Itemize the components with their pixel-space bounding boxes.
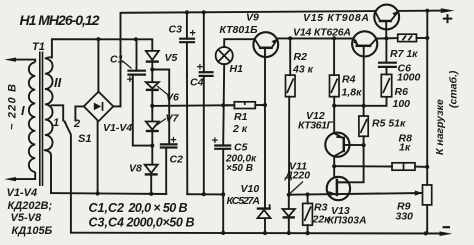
svg-text:V8: V8: [129, 163, 142, 175]
wire R3 leads: [307, 195, 309, 204]
output minus arrow: [440, 231, 453, 236]
svg-text:2 к: 2 к: [232, 123, 248, 135]
wire bottom rail: [71, 232, 445, 235]
wire secondary top hook: [45, 57, 52, 58]
wire right column x427: [426, 11, 428, 185]
svg-text:V6: V6: [166, 92, 179, 104]
resistor R5: [359, 116, 368, 136]
svg-text:R5 51к: R5 51к: [372, 118, 406, 130]
wire R7 right lead: [417, 37, 428, 39]
wire V10 bottom: [264, 218, 266, 233]
wire C3 riser: [186, 12, 188, 38]
svg-text:R3: R3: [314, 202, 328, 214]
junction AC bottom V8: [149, 192, 153, 196]
wire C6 top lead: [385, 38, 387, 62]
capacitor C6: [378, 63, 397, 67]
transformer T1 secondary winding: [45, 58, 53, 150]
wire branch V5-V6 junction to C2 top: [152, 70, 169, 145]
wire lamp C5 column: [223, 64, 224, 145]
junction minus rail C5 column: [221, 231, 225, 235]
mains input arrow top: [4, 58, 16, 62]
junction V13 drain row: [332, 164, 336, 168]
capacitor C5: [214, 146, 231, 149]
junction minus rail R9: [424, 231, 428, 235]
junction DC bottom C5: [221, 192, 225, 196]
svg-text:V1-V4: V1-V4: [7, 187, 38, 199]
wire R4 column: [333, 38, 335, 75]
wire V12 base lead: [344, 144, 364, 146]
svg-text:1,8к: 1,8к: [342, 87, 363, 99]
diode V11: [283, 209, 295, 217]
svg-text:С3,С4: С3,С4: [89, 216, 125, 230]
wire V14 base column: [363, 46, 365, 106]
diode V5: [146, 51, 159, 62]
R9 wiper arrowhead: [415, 190, 423, 195]
wire R6 bottom corner: [364, 97, 387, 106]
wire bottom DC segment C3-C5: [187, 193, 223, 195]
wire V11 bottom lead: [288, 218, 290, 233]
diode V8: [145, 165, 158, 175]
junction rail R7 branch: [425, 9, 429, 13]
svg-text:R6: R6: [395, 86, 409, 98]
svg-text:Н1: Н1: [230, 63, 244, 75]
bridge rectifier V1-V4 diamond: [84, 92, 114, 122]
junction bus R2 top: [288, 36, 292, 40]
junction bus R4 top: [332, 36, 336, 40]
svg-text:100: 100: [393, 98, 411, 110]
junction R8 right column: [425, 165, 429, 169]
junction V7-V8 node: [150, 144, 154, 148]
svg-text:(стаб.): (стаб.): [448, 70, 460, 108]
svg-text:S1: S1: [78, 133, 91, 145]
svg-text:43 к: 43 к: [292, 64, 314, 76]
wire lamp top to V9: [224, 39, 254, 47]
svg-text:1000: 1000: [397, 72, 421, 84]
lamp H1: [216, 47, 233, 64]
svg-text:Н1 МН26-0,12: Н1 МН26-0,12: [20, 12, 100, 28]
wire bridge bottom riser: [97, 121, 99, 193]
svg-text:R1: R1: [234, 111, 248, 123]
svg-text:V15 КТ908А: V15 КТ908А: [303, 12, 369, 24]
junction R1 right V9 emitter V10: [263, 103, 267, 107]
wire secondary top y39: [52, 39, 152, 57]
svg-text:КД202В;: КД202В;: [8, 200, 53, 212]
junction V6-V7 node: [150, 104, 154, 108]
svg-text:С3: С3: [169, 24, 183, 36]
svg-text:Д220: Д220: [284, 170, 310, 182]
wire top rail right segment with + output: [399, 10, 446, 12]
svg-text:V10: V10: [241, 183, 260, 195]
diode V7: [146, 122, 159, 132]
wire drain row to R8: [334, 165, 392, 167]
junction secondary-top bridge input: [96, 37, 100, 41]
wire bus V14 to R7: [376, 37, 398, 40]
switch S1 arm and pole wire: [65, 122, 71, 233]
resistor R3: [303, 203, 313, 225]
wire R2 top lead: [289, 38, 291, 75]
wire R5 leads: [363, 106, 365, 116]
wire C1 top lead: [136, 39, 138, 70]
svg-text:22к: 22к: [312, 214, 331, 226]
junction AC bottom bridge: [96, 191, 100, 195]
transistor V9: [253, 32, 278, 57]
svg-text:КП303А: КП303А: [328, 215, 367, 227]
svg-text:V1-V4: V1-V4: [103, 122, 132, 134]
svg-text:1к: 1к: [399, 142, 411, 154]
wire C4 riser: [203, 12, 205, 72]
junction rail C3: [185, 10, 189, 14]
gate arrow of V13: [329, 191, 337, 197]
bridge internal diode: [94, 103, 102, 111]
wire V15 base lead: [385, 21, 387, 39]
wire top rail left segment: [121, 11, 375, 106]
svg-text:20,0 × 50 В: 20,0 × 50 В: [128, 201, 188, 215]
junction minus rail V10: [263, 231, 267, 235]
capacitor C3: [179, 39, 195, 43]
wire R2 bottom long lead: [288, 97, 290, 195]
wire C6 to R6: [386, 67, 388, 74]
svg-text:V5-V8: V5-V8: [11, 212, 42, 224]
junction R4 bottom V12 emitter: [332, 104, 336, 108]
svg-text:+: +: [189, 28, 196, 40]
junction lamp R1 left: [221, 103, 225, 107]
svg-text:V9: V9: [246, 12, 259, 24]
svg-text:Т1: Т1: [32, 41, 45, 53]
svg-text:КТ801Б: КТ801Б: [220, 24, 259, 36]
svg-text:330: 330: [396, 211, 414, 223]
label V6 with pointer: [157, 86, 167, 94]
svg-text:2000,0×50 В: 2000,0×50 В: [126, 216, 195, 230]
resistor R6: [381, 74, 391, 96]
wire bridge right vertex to rail riser: [113, 105, 120, 107]
wire V11 top lead: [288, 195, 290, 209]
wire branch V7-V8 junction to C1 bottom: [133, 75, 153, 146]
mains input arrow bottom: [4, 177, 16, 181]
junction minus rail R3: [306, 231, 310, 235]
resistor R8: [392, 163, 415, 170]
wire mid row R4 to R6: [334, 105, 364, 107]
svg-text:V5: V5: [165, 52, 178, 64]
svg-text:1: 1: [53, 117, 59, 129]
resistor R1: [234, 102, 255, 109]
junction bus V15 base C6: [384, 36, 388, 40]
junction R7 right column: [425, 36, 429, 40]
svg-text:С1: С1: [110, 54, 124, 66]
wire R1 row: [152, 104, 234, 107]
svg-text:V7: V7: [166, 113, 180, 125]
wire bus y38 from V9 to V14: [278, 37, 354, 39]
wire secondary tap 1: [52, 105, 64, 120]
capacitor C1: [127, 71, 146, 75]
wire gate row V11 to R9 wiper: [289, 193, 422, 195]
svg-text:V14 КТ626А: V14 КТ626А: [293, 27, 351, 39]
svg-text:R2: R2: [294, 51, 308, 63]
junction rail C4: [202, 10, 206, 14]
svg-text:С2: С2: [170, 154, 184, 166]
svg-text:×50 В: ×50 В: [226, 163, 253, 174]
label V11 with pointer: [290, 182, 303, 194]
svg-text:~ 220 В: ~ 220 В: [7, 84, 19, 130]
transformer T1 primary winding: [11, 60, 35, 180]
wire V9 emitter-R1 column down to V10: [264, 48, 266, 208]
resistor R2: [286, 75, 296, 97]
wire bridge top riser: [97, 39, 99, 92]
svg-text:2: 2: [73, 118, 80, 130]
diode V6: [146, 82, 159, 90]
resistor R7: [398, 34, 417, 41]
svg-text:К нагрузке: К нагрузке: [434, 99, 446, 155]
junction R5 bottom V12 base: [362, 143, 366, 147]
label V7 with pointer: [156, 119, 166, 126]
svg-text:С1,С2: С1,С2: [89, 201, 125, 215]
svg-text:II: II: [54, 75, 62, 90]
transistor V15: [374, 5, 399, 30]
junction C1 top: [134, 37, 138, 41]
svg-text:+: +: [127, 74, 134, 86]
junction V5-V6 node: [150, 67, 154, 71]
svg-text:КД105Б: КД105Б: [12, 225, 53, 237]
label minus: [443, 226, 450, 228]
svg-text:+: +: [197, 62, 204, 74]
transformer core: [40, 52, 43, 187]
wire diode chain V5-V8 column: [151, 62, 153, 82]
wire V12 collector to V13 drain riser: [333, 156, 335, 177]
wire bottom AC segment: [51, 192, 166, 195]
wire secondary bottom lead: [45, 150, 51, 193]
svg-text:+: +: [170, 135, 177, 147]
svg-text:КТ361Г: КТ361Г: [298, 120, 334, 132]
svg-text:+: +: [212, 135, 219, 147]
capacitor C4: [199, 72, 214, 76]
zener V10: [257, 204, 271, 218]
svg-text:С5: С5: [234, 142, 248, 154]
svg-text:КС527А: КС527А: [227, 195, 261, 207]
junction gate row R3: [306, 192, 310, 196]
svg-text:R4: R4: [342, 74, 356, 86]
capacitor C2: [160, 144, 178, 147]
wire V13 source loop to R5 node: [337, 145, 364, 182]
junction DC bottom C4: [202, 192, 206, 196]
junction gate row V11: [287, 193, 291, 197]
transistor V14: [352, 31, 377, 56]
transistor V12: [325, 133, 349, 157]
potentiometer R9: [423, 185, 432, 205]
wire C2 bottom lead: [165, 148, 167, 195]
transistor V13 FET: [327, 177, 350, 200]
svg-text:R7 1к: R7 1к: [390, 48, 418, 60]
wire bridge left vertex to contact 2: [75, 106, 83, 120]
wire R1 left lead: [223, 104, 234, 106]
svg-text:С4: С4: [190, 77, 204, 89]
svg-text:I: I: [21, 103, 25, 118]
junction V14 base R5 R6: [362, 104, 366, 108]
switch contact hooks: [63, 120, 75, 123]
junction minus rail V11: [287, 231, 291, 235]
resistor R4: [330, 75, 340, 97]
label plus: [443, 14, 453, 23]
output plus arrow: [441, 8, 455, 13]
